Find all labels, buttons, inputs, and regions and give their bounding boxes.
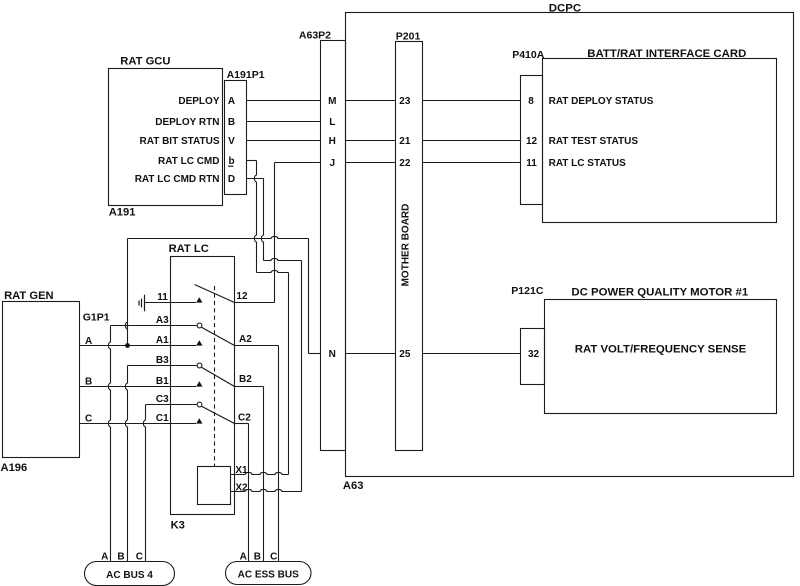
wire B3 drop to AC BUS 4 phase B, hops over B1 C1 <box>125 366 127 562</box>
contact blade C3-C2 <box>201 406 235 424</box>
svg-text:AC ESS BUS: AC ESS BUS <box>238 570 299 581</box>
svg-text:J: J <box>330 158 336 169</box>
svg-text:G1P1: G1P1 <box>83 312 110 324</box>
connector A63P2 box <box>321 41 346 451</box>
svg-text:A1: A1 <box>156 335 169 346</box>
svg-text:11: 11 <box>157 292 168 303</box>
wire J vertical down to contact 12 <box>274 163 276 303</box>
svg-text:22: 22 <box>399 158 411 169</box>
contact arrow terminal A1 <box>196 340 202 345</box>
DCPC outer box <box>346 13 794 477</box>
RAT LC box outline <box>171 257 235 515</box>
wire A2 drop to AC ESS BUS phase C <box>278 346 280 562</box>
wire phase A from RAT GEN to contact A1 <box>80 345 197 347</box>
connector P410A box <box>521 76 543 205</box>
svg-text:L: L <box>329 117 335 128</box>
svg-text:DCPC: DCPC <box>549 2 581 14</box>
relay K3 actuator dashed linkage <box>214 286 216 467</box>
svg-text:K3: K3 <box>171 520 185 532</box>
svg-text:21: 21 <box>399 136 411 147</box>
wire contact A2 horizontal <box>235 345 279 347</box>
wire phase B from RAT GEN to contact B1 <box>80 386 197 388</box>
svg-text:BATT/RAT INTERFACE CARD: BATT/RAT INTERFACE CARD <box>587 48 746 60</box>
svg-text:23: 23 <box>399 96 411 107</box>
svg-text:A: A <box>240 552 247 563</box>
svg-text:DC POWER QUALITY MOTOR #1: DC POWER QUALITY MOTOR #1 <box>571 287 748 299</box>
wire GCU pin V to A63P2 pin H <box>247 140 321 142</box>
contact terminal circle B3 <box>197 363 202 368</box>
svg-text:11: 11 <box>526 158 537 169</box>
wire b command vertical, hops over D stub and sense wire <box>254 161 256 273</box>
connector A191P1 box <box>225 81 247 195</box>
svg-text:DEPLOY RTN: DEPLOY RTN <box>155 117 219 128</box>
AC BUS 4 oval <box>85 562 175 586</box>
wire B2 drop to AC ESS BUS phase B <box>263 387 265 562</box>
ground symbol at contact 11 <box>139 295 145 312</box>
contact arrow terminal C1 <box>196 418 202 423</box>
BATT/RAT interface card box <box>543 59 777 223</box>
wire D return drop to coil X2 <box>301 261 303 492</box>
wire 23 to card pin 8 <box>423 100 521 102</box>
connector P121C box <box>521 329 545 385</box>
wire GCU pin D stub <box>247 178 264 180</box>
pin b underline <box>228 165 233 167</box>
wire b command mid horizontal, hop over J wire <box>257 270 289 272</box>
wire b command drop to coil X1 <box>288 273 290 475</box>
RAT GEN box A196 <box>3 302 80 458</box>
wire D return vertical, hop over sense wire <box>261 179 263 261</box>
svg-text:A191P1: A191P1 <box>227 69 265 81</box>
wire C3 drop to AC BUS 4 phase C, hop over C1 <box>143 405 145 562</box>
wire phase C from RAT GEN to contact C1 <box>80 423 197 425</box>
svg-text:B: B <box>117 552 124 563</box>
svg-text:RAT DEPLOY STATUS: RAT DEPLOY STATUS <box>549 96 654 107</box>
DC power quality motor box <box>545 300 777 414</box>
wire contact C2 horizontal <box>235 423 249 425</box>
wire 22 to card pin 11 <box>423 162 521 164</box>
svg-text:8: 8 <box>528 96 534 107</box>
wire C2 drop to AC ESS BUS phase A <box>248 424 250 562</box>
svg-text:B1: B1 <box>156 376 169 387</box>
svg-text:A2: A2 <box>239 334 252 345</box>
svg-text:B2: B2 <box>239 374 252 385</box>
connector P201 mother board box <box>396 42 423 451</box>
contact arrow terminal B1 <box>196 381 202 386</box>
wire contact A3 horizontal <box>111 325 197 327</box>
svg-text:RAT VOLT/FREQUENCY SENSE: RAT VOLT/FREQUENCY SENSE <box>575 344 747 356</box>
wire GCU pin b stub <box>247 160 257 162</box>
svg-text:A: A <box>101 552 108 563</box>
wire GCU pin A to A63P2 pin M <box>247 100 321 102</box>
svg-text:D: D <box>228 174 235 185</box>
wire M to motherboard pin 23 <box>346 100 396 102</box>
contact terminal circle C3 <box>197 402 202 407</box>
svg-text:M: M <box>328 96 336 107</box>
contact blade 11-12 <box>195 285 235 303</box>
wire sense riser from phase A node, hop over A3 wire <box>125 239 127 346</box>
svg-text:MOTHER BOARD: MOTHER BOARD <box>401 204 412 287</box>
wire A63P2 pin J left stub <box>275 162 321 164</box>
svg-text:A3: A3 <box>156 315 169 326</box>
svg-text:P201: P201 <box>396 31 421 43</box>
svg-text:RAT LC STATUS: RAT LC STATUS <box>549 158 627 169</box>
contact arrow terminal 11 <box>196 297 202 302</box>
svg-text:RAT GCU: RAT GCU <box>120 56 170 68</box>
svg-text:12: 12 <box>236 291 248 302</box>
svg-text:C1: C1 <box>156 413 169 424</box>
wire contact C3 horizontal <box>146 404 197 406</box>
svg-text:C: C <box>85 414 92 425</box>
svg-text:A63P2: A63P2 <box>299 30 331 42</box>
svg-text:RAT LC CMD RTN: RAT LC CMD RTN <box>135 174 220 185</box>
wire ground to contact 11 <box>145 302 197 304</box>
svg-text:B3: B3 <box>156 355 169 366</box>
svg-text:V: V <box>228 136 235 147</box>
AC ESS BUS oval <box>226 562 312 585</box>
svg-text:A: A <box>85 336 92 347</box>
svg-text:DEPLOY: DEPLOY <box>178 96 219 107</box>
wire contact B3 horizontal <box>128 365 197 367</box>
svg-text:A: A <box>228 96 235 107</box>
wire coil X1, hops over ESS phase drops <box>231 472 289 474</box>
RAT GCU box A191 <box>109 69 223 206</box>
svg-text:X2: X2 <box>235 483 248 494</box>
svg-text:B: B <box>85 377 92 388</box>
wire N to motherboard pin 25 <box>346 353 396 355</box>
svg-text:A196: A196 <box>1 462 28 474</box>
svg-text:C3: C3 <box>156 394 169 405</box>
svg-text:b: b <box>228 156 234 167</box>
svg-text:12: 12 <box>526 136 538 147</box>
wire node N left stub <box>309 353 321 355</box>
svg-text:RAT LC CMD: RAT LC CMD <box>158 156 219 167</box>
svg-text:RAT BIT STATUS: RAT BIT STATUS <box>140 136 220 147</box>
svg-text:32: 32 <box>528 349 540 360</box>
junction node on phase A sense tap <box>125 343 130 348</box>
wire 25 to motor pin 32 <box>423 353 521 355</box>
wire sense drop to pin N <box>308 239 310 354</box>
svg-text:B: B <box>254 552 261 563</box>
contact blade B3-B2 <box>201 367 235 387</box>
svg-text:RAT TEST STATUS: RAT TEST STATUS <box>549 136 639 147</box>
svg-text:A191: A191 <box>109 207 136 219</box>
svg-text:H: H <box>329 136 336 147</box>
svg-text:P121C: P121C <box>511 285 544 297</box>
wire D return mid horizontal, hop over J wire <box>264 258 302 260</box>
wire coil X2, hops over ESS phase drops <box>231 489 302 491</box>
svg-text:C: C <box>270 552 277 563</box>
svg-text:RAT GEN: RAT GEN <box>4 290 54 302</box>
svg-text:C2: C2 <box>238 413 251 424</box>
wire GCU pin B to A63P2 pin L <box>247 121 321 123</box>
wire contact B2 horizontal <box>235 386 264 388</box>
svg-text:C: C <box>136 552 143 563</box>
svg-text:AC BUS 4: AC BUS 4 <box>106 570 153 581</box>
wire H to motherboard pin 21 <box>346 140 396 142</box>
contact terminal circle A3 <box>197 323 202 328</box>
wire volt/freq sense top horizontal, hop over J wire <box>128 236 309 238</box>
relay coil box of K3 <box>198 467 231 505</box>
svg-text:B: B <box>228 117 235 128</box>
svg-text:25: 25 <box>399 349 411 360</box>
wire 21 to card pin 12 <box>423 140 521 142</box>
contact blade A3-A2 <box>201 327 235 346</box>
svg-text:A63: A63 <box>343 480 364 492</box>
svg-text:P410A: P410A <box>512 49 545 61</box>
wire J to motherboard pin 22 <box>346 162 396 164</box>
svg-text:N: N <box>329 349 336 360</box>
wire contact 12 to J riser <box>235 302 275 304</box>
svg-text:X1: X1 <box>235 465 248 476</box>
wire A3 drop to AC BUS 4 phase A, hops over A1 B1 C1 <box>108 326 110 562</box>
svg-text:RAT LC: RAT LC <box>169 243 209 255</box>
